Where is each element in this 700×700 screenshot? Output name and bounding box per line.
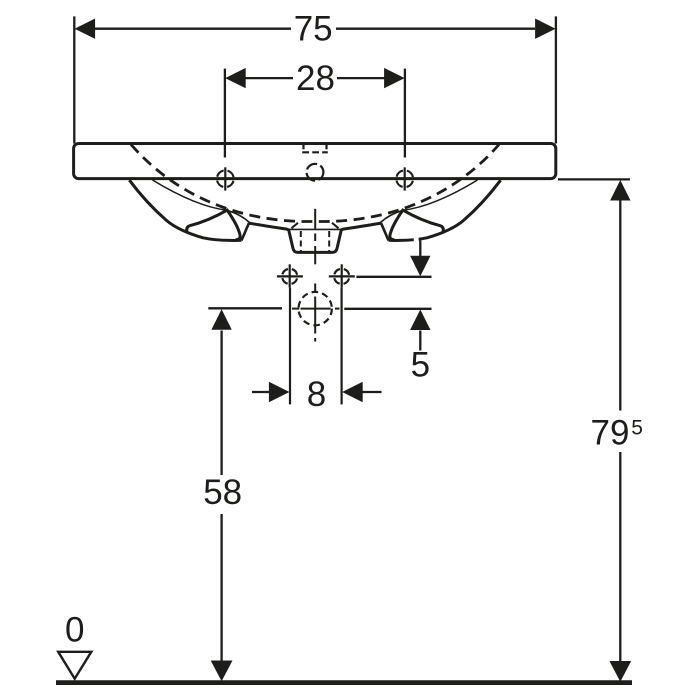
svg-text:0: 0 (65, 611, 84, 650)
dimension 58 (208, 308, 282, 681)
gap in right wing bottom edge (414, 238, 419, 243)
bowl outer profile left (129, 180, 241, 240)
hidden basin rim (dashed arc) (131, 145, 499, 222)
tap hole right (cross + dashed circle) (392, 167, 418, 190)
drain hole (dashed circle) (299, 292, 332, 325)
svg-text:28: 28 (296, 59, 335, 98)
drain spout (249, 223, 381, 253)
dimension 28 (225, 68, 405, 158)
tap hole left (cross + dashed circle) (212, 167, 238, 190)
dimension 8 (252, 288, 382, 405)
dimension 79.5 (height) (558, 179, 631, 681)
bowl underside step left (242, 223, 250, 240)
bowl inner rim line right (thin) (381, 180, 478, 223)
fixation hole left (cross + dashed circle) (277, 264, 303, 287)
bowl underside step right (381, 223, 389, 240)
center tap hole circle (307, 164, 324, 181)
svg-text:79: 79 (591, 414, 630, 453)
bowl inner rim line left (thin) (153, 180, 250, 223)
bowl outer profile right (389, 180, 501, 240)
svg-text:75: 75 (294, 9, 333, 48)
svg-text:5: 5 (631, 417, 643, 440)
underside pocket left (187, 210, 240, 240)
overflow slot (dashed, hidden) (302, 145, 328, 153)
drain horizontal centerline (292, 308, 340, 310)
washbasin top plate (74, 144, 556, 179)
svg-text:58: 58 (203, 473, 242, 512)
datum triangle (58, 652, 91, 679)
dimension 5 (344, 240, 431, 350)
dimension 75 (74, 16, 556, 143)
svg-text:8: 8 (307, 375, 326, 414)
svg-text:5: 5 (411, 345, 430, 384)
fixation hole right (cross + dashed circle) (329, 264, 355, 287)
drain vertical centerline (314, 209, 316, 342)
floor line (56, 680, 632, 685)
underside pocket right (390, 210, 443, 240)
